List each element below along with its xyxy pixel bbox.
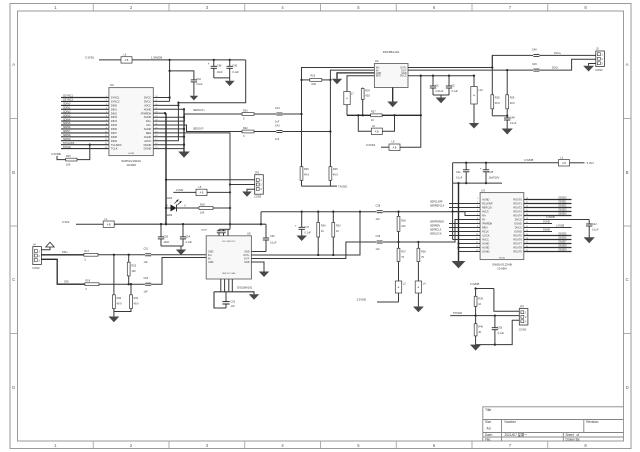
wire joining C46/C40 bottoms [214,78,230,81]
wire U4 GND to ground [337,73,374,79]
inductor L10 vertical [471,75,483,123]
svg-text:1nF: 1nF [376,248,381,251]
svg-text:C44: C44 [275,107,280,110]
svg-text:3.3VDB: 3.3VDB [357,298,366,302]
svg-text:DIN7: DIN7 [111,131,117,135]
svg-text:7: 7 [106,120,107,122]
svg-text:DOU+: DOU+ [554,52,562,55]
svg-text:10uF/16V: 10uF/16V [489,176,500,179]
resistor R24 ADJ [361,88,370,117]
svg-text:3.3V1: 3.3V1 [587,161,595,165]
wire rail1 RI+ line [261,211,480,216]
capacitor C40 0.1uF [227,59,240,78]
svg-text:C50: C50 [164,235,169,238]
svg-text:C36: C36 [270,235,275,238]
svg-text:D: D [626,385,629,390]
svg-text:10K: 10K [200,212,205,215]
svg-text:100: 100 [132,270,137,273]
svg-text:DESD6: DESD6 [559,237,568,240]
svg-text:DESD5: DESD5 [559,233,568,236]
wire TPGND net [450,311,519,317]
ground below C5/C6 [436,98,447,104]
svg-text:100nF: 100nF [201,230,208,232]
resistor R31 pulldown 49.9 [114,284,139,311]
svg-text:SERPWRDN: SERPWRDN [430,221,444,224]
svg-text:AGND: AGND [482,243,489,246]
svg-text:DVCC: DVCC [400,76,407,78]
resistor R27 series on bias rail [371,111,421,122]
svg-text:A3: A3 [487,427,491,431]
power net 3.3VD1 with ferrite bead L6 [85,54,246,64]
svg-text:0.1uF: 0.1uF [510,122,517,125]
svg-text:SO28: SO28 [499,257,505,259]
svg-text:C48: C48 [532,48,537,51]
svg-text:DESD3: DESD3 [559,209,568,212]
svg-text:C48: C48 [510,117,515,120]
svg-text:R33: R33 [336,225,341,228]
power net 3.3VD1 with inductor L9 [366,76,422,151]
power symbol at J4 pin3 [41,242,54,250]
svg-text:DO-: DO- [147,123,152,127]
ground below R30/R31 [109,317,120,323]
resistor R28 termination [491,55,500,115]
svg-text:A B: A B [562,162,566,165]
svg-text:TPGND: TPGND [453,311,462,315]
svg-text:A B: A B [375,130,379,133]
svg-text:C: C [626,277,629,282]
svg-text:AVCC: AVCC [482,211,489,214]
svg-text:C34: C34 [196,78,201,81]
svg-text:AGND: AGND [144,135,152,139]
svg-text:10-66M: 10-66M [126,163,136,167]
capacitor C46 10uF [208,59,223,78]
svg-text:B: B [626,170,629,175]
svg-text:10-66M: 10-66M [497,266,507,270]
svg-text:1K: 1K [371,119,374,122]
svg-text:10R: 10R [311,83,316,86]
capacitor C50 10nF [158,223,170,246]
svg-text:Drawn By:: Drawn By: [566,438,581,442]
wire U4 DVCC rail [408,75,474,77]
svg-text:DO+: DO+ [146,119,152,123]
svg-text:B: B [12,170,15,175]
svg-text:U2: U2 [110,83,114,87]
resistor R38 75 [417,242,426,281]
wires U2 left input bundle with net labels [61,95,109,149]
wire U2 /PWRDN stub [153,112,165,114]
resistor R36 100 [397,212,406,242]
svg-text:AGND: AGND [482,199,489,202]
svg-text:RI-: RI- [482,219,486,222]
svg-text:ROUT0: ROUT0 [513,199,522,202]
wire bias rail U4 [347,114,371,116]
svg-text:U3: U3 [481,188,485,192]
svg-text:SERCLKRF: SERCLKRF [430,201,443,204]
svg-text:3: 3 [106,104,107,106]
svg-text:A B: A B [125,59,129,62]
svg-text:100: 100 [401,225,406,228]
svg-text:AVCC: AVCC [144,104,151,108]
svg-text:GND: GND [401,73,406,75]
op-amp U3 deserializer SN65LV1224B [476,188,528,270]
svg-text:ROUT5: ROUT5 [513,235,522,238]
svg-text:DIN8: DIN8 [111,135,117,139]
svg-text:2: 2 [106,100,107,102]
svg-text:SSYNC1: SSYNC1 [63,95,74,98]
svg-text:OUT-: OUT- [401,70,407,72]
wire DVCC feed to U2 [153,59,170,102]
svg-text:DS15BA101: DS15BA101 [237,285,253,289]
svg-text:C41: C41 [456,171,461,174]
ground at J5 [583,66,594,72]
resistor R18 LED series [199,203,231,214]
wire U5 OUT+ rail [251,211,361,257]
svg-text:C46: C46 [217,65,222,68]
svg-text:U5: U5 [247,232,251,236]
svg-text:1nF: 1nF [376,218,381,221]
wire TXGND node [302,184,348,188]
ground below U5 bottom pins [249,294,259,300]
svg-text:D: D [12,385,15,390]
svg-text:49.9: 49.9 [134,303,139,306]
resistor R30 pulldown 49.9 [113,255,123,317]
capacitor C43 series 1nF [275,124,330,140]
wire cap bottoms [161,246,183,250]
resistor R23 10R bridge [302,75,331,86]
svg-text:ROUT8: ROUT8 [513,247,522,250]
wire U2 AGND/DGND trunk [153,108,185,151]
svg-text:1K: 1K [321,230,324,233]
svg-text:DESD7: DESD7 [559,241,568,244]
svg-text:C54: C54 [186,235,191,238]
wire U5 GND2 to ground [251,262,264,272]
svg-text:SDIN5: SDIN5 [63,122,71,125]
connector JP2 [254,170,263,198]
svg-text:ROUT6: ROUT6 [513,239,522,242]
svg-text:49.9: 49.9 [304,174,309,177]
svg-text:CON3: CON3 [595,68,603,72]
svg-text:R22: R22 [243,127,248,130]
svg-text:SSYNC2: SSYNC2 [63,99,74,102]
svg-text:DVCC: DVCC [515,227,522,230]
svg-text:SDIN0: SDIN0 [63,103,71,106]
connector JP3 [519,304,528,331]
svg-text:11: 11 [105,135,107,137]
svg-text:3.3VDB: 3.3VDB [51,152,61,156]
svg-text:0.1uF: 0.1uF [498,332,505,335]
svg-text:R19: R19 [86,280,91,283]
svg-text:1K: 1K [336,230,339,233]
power net 3.3VDB to L3 [357,298,399,302]
ground below R40 [470,345,481,351]
wire U3 DVCC to C42 [524,216,589,220]
ground U4 bottom [387,102,398,108]
svg-text:ROUT9: ROUT9 [513,251,522,254]
svg-text:DGND: DGND [514,223,522,226]
svg-text:C39: C39 [376,235,381,238]
svg-text:3.3VD1: 3.3VD1 [366,143,376,147]
svg-text:R29: R29 [510,97,515,100]
svg-text:REFCLK: REFCLK [482,207,492,210]
svg-text:10K: 10K [66,163,71,166]
wire AVCC feed into U3 [451,183,480,239]
capacitor C36 0.1uF [263,224,277,251]
svg-text:3.3VDB: 3.3VDB [556,224,565,227]
capacitor C37 0.1uF [295,212,312,236]
svg-text:DESD1: DESD1 [559,201,568,204]
capacitor C63 0.1uF [492,316,505,345]
wire SDI+ net [41,250,84,255]
wire U5 top pins with bypass caps [201,229,230,236]
ground below C37 [297,236,307,242]
svg-text:A: A [626,62,629,67]
svg-text:BFO: BFO [376,76,381,78]
svg-text:1: 1 [106,96,107,98]
ground big below U3 [452,261,466,268]
svg-text:1.99VDB: 1.99VDB [151,55,162,59]
capacitor C34 0.1uF decoupling [168,70,203,96]
wire SEDOUT- net [153,125,242,132]
wire 3.3V rail riser to mid network [260,212,262,226]
svg-text:VCC GND VCC: VCC GND VCC [222,241,236,243]
svg-text:DIN9: DIN9 [111,139,117,143]
svg-text:JP2: JP2 [255,170,260,174]
svg-text:DESD8: DESD8 [559,245,568,248]
svg-text:SYNC2: SYNC2 [111,100,120,104]
svg-text:Date:: Date: [485,433,493,437]
capacitor C36b 0.01uF [430,76,444,95]
wire JP2 pin1 net [165,179,255,181]
svg-text:8: 8 [106,123,107,125]
title block [483,407,624,441]
svg-text:C40: C40 [232,65,237,68]
svg-text:U4: U4 [375,59,379,63]
svg-text:DGND: DGND [543,220,550,223]
svg-text:JP3: JP3 [520,304,525,308]
svg-text:ADJ: ADJ [365,95,370,98]
svg-text:+: + [295,223,297,227]
svg-text:R20: R20 [243,109,248,112]
svg-text:IN-: IN- [376,70,379,72]
capacitor C35b 0.1uF [446,76,459,95]
ground below C50/C54 [176,250,186,256]
svg-text:AGND: AGND [144,107,152,111]
inductor L3 ferrite [395,281,406,302]
svg-text:SERREN: SERREN [430,225,440,228]
svg-text:10: 10 [105,131,107,133]
wire rail2 RI- line [382,220,480,244]
svg-text:SDIN9: SDIN9 [63,138,71,141]
svg-text:DGND: DGND [144,143,152,147]
ground below C42 [584,237,595,243]
svg-text:TCLK: TCLK [111,147,118,151]
svg-text:GND: GND [208,261,214,264]
svg-text:4: 4 [106,108,107,110]
svg-text:DVCC: DVCC [144,100,151,104]
capacitor C56 series on DOUT+ [532,48,596,57]
svg-text:C45: C45 [489,171,494,174]
wire U3 DGND stub [524,220,552,223]
power net 3.3VDB top of U3 with bead L2 [453,157,595,167]
wires U3 left control nets [430,201,480,236]
svg-text:DGND: DGND [482,251,490,254]
svg-text:DOU-: DOU- [552,67,559,70]
svg-text:Size: Size [485,420,491,424]
svg-text:C37: C37 [305,226,310,229]
svg-text:GND: GND [376,73,381,75]
svg-text:OUT+: OUT+ [400,68,407,70]
resistor R20 series [242,109,277,120]
svg-text:R39: R39 [478,298,483,301]
svg-text:5: 5 [106,112,107,114]
capacitor C38 series 1nF [376,205,383,221]
svg-text:LED4: LED4 [166,197,173,200]
capacitor C57 series on DOUT- [532,59,596,72]
svg-text:C52: C52 [144,277,149,280]
svg-text:49.9: 49.9 [117,303,122,306]
wire SEDOUT+ net [153,109,242,121]
svg-text:C51: C51 [144,248,149,251]
svg-text:10uF: 10uF [217,71,223,74]
svg-text:R25: R25 [304,168,309,171]
capacitor C39 series 1nF [376,235,383,251]
svg-text:AGND: AGND [144,115,152,119]
svg-text:A B: A B [107,223,111,226]
wire caps bottoms to ground [433,95,449,98]
wire U3 DVCC2 stub [524,224,572,227]
svg-text:C: C [12,277,15,282]
svg-text:0.1uF: 0.1uF [452,90,459,93]
svg-text:+: + [208,62,210,66]
svg-text:RCLKR/F: RCLKR/F [482,203,493,206]
svg-text:13: 13 [105,143,107,145]
wire U5 OUT- to C39 line [251,242,376,259]
svg-text:3.3VDB: 3.3VDB [524,158,533,162]
svg-text:0.1uF: 0.1uF [196,83,203,86]
svg-text:SDIN6: SDIN6 [63,126,71,129]
svg-text:REN: REN [482,227,487,230]
svg-text:RCLK: RCLK [482,231,489,234]
svg-text:GND: GND [244,261,250,264]
svg-text:ROUT7: ROUT7 [513,243,522,246]
svg-text:3.3VDB: 3.3VDB [546,216,555,219]
svg-text:AVCC: AVCC [482,239,489,242]
ground right of U5 [259,272,269,278]
wire long vertical control/supply bus [165,113,167,224]
svg-text:SO28: SO28 [128,153,134,155]
resistor R16 pull-up on TCLKR/F [51,144,91,167]
svg-text:STCLK: STCLK [63,146,71,149]
svg-text:Revision: Revision [586,420,598,424]
svg-text:DIN2: DIN2 [111,111,117,115]
svg-text:R26: R26 [333,168,338,171]
svg-text:SERREFCLK: SERREFCLK [430,205,445,208]
svg-text:5: 5 [477,214,478,216]
svg-text:49.9: 49.9 [510,102,515,105]
wire DOUT+ from U4 [408,55,534,67]
wire JP3 lower return [476,320,520,346]
svg-text:0.1uF: 0.1uF [186,241,193,244]
resistor R26 termination 49.9 [329,167,338,186]
svg-text:14: 14 [105,147,107,149]
ground below C46/C40 [225,81,235,86]
svg-text:12: 12 [105,139,107,141]
svg-text:R32: R32 [132,265,137,268]
svg-text:10nF: 10nF [164,241,170,244]
svg-text:4K: 4K [478,331,481,334]
svg-text:6: 6 [106,116,107,118]
capacitor C53 1nF loop [214,279,254,308]
wire riser to U4 IN- [329,70,374,167]
svg-text:R37: R37 [401,251,406,254]
svg-text:LED4: LED4 [166,214,173,217]
svg-text:A B: A B [200,192,204,195]
svg-text:R31: R31 [134,297,139,300]
resistor R29 termination [506,69,515,116]
svg-text:DESD9: DESD9 [559,249,568,252]
svg-text:TXGND: TXGND [338,184,347,188]
svg-text:0.1uF: 0.1uF [270,242,277,245]
resistor R33 1K [332,212,341,255]
wire U3 DGND2 stub [524,228,552,231]
svg-text:DIN4: DIN4 [111,119,117,123]
svg-text:3.3VD1: 3.3VD1 [85,55,95,59]
svg-text:1nF: 1nF [144,291,149,294]
capacitor C54 0.1uF [180,223,193,246]
inductor L4 ferrite [415,281,426,307]
ground at JP2 [242,192,252,197]
resistor R22 series [242,127,277,138]
capacitor C41 0.1uF [456,163,469,183]
svg-text:SERLOCK: SERLOCK [430,233,442,236]
svg-text:0.1uF: 0.1uF [305,232,312,235]
svg-text:SEDOUT-: SEDOUT- [193,128,204,131]
svg-text:RI+: RI+ [482,215,487,218]
ground below L4 [413,307,424,313]
wire U4 bottom GND pin [392,88,394,102]
svg-text:0.1uF: 0.1uF [232,71,239,74]
svg-text:SERRCLK: SERRCLK [430,229,442,232]
svg-text:1nF: 1nF [144,261,149,264]
svg-text:1nF: 1nF [275,120,280,123]
svg-text:Title: Title [485,408,491,412]
svg-text:DGND: DGND [144,147,152,151]
connector J4 input [32,242,41,269]
svg-text:0.1uF: 0.1uF [456,176,463,179]
svg-text:CON3: CON3 [519,328,527,332]
inductor L8 ferrite parallel [357,114,396,134]
resistor R37 75 [397,242,406,281]
svg-text:R23: R23 [311,75,316,78]
svg-text:SDIN8: SDIN8 [63,134,71,137]
capacitor C51 series 1nF [144,248,207,264]
svg-text:A B: A B [393,146,397,149]
svg-text:0.01uF: 0.01uF [436,90,444,93]
svg-text:3.3V2: 3.3V2 [62,220,70,224]
svg-text:+: + [480,166,482,170]
wires U3 right ROUT nets [524,197,572,252]
svg-text:SDI+: SDI+ [62,250,68,254]
ground U4 input side [332,79,342,85]
wire riser to U4 IN+ [300,68,374,167]
svg-text:1nF: 1nF [275,138,280,141]
capacitor C44 series 1nF [275,107,302,123]
svg-text:49.9: 49.9 [333,174,338,177]
svg-text:SDIN7: SDIN7 [63,130,71,133]
svg-text:R38: R38 [421,251,426,254]
connector J5 output [595,47,604,72]
svg-text:R17: R17 [85,250,90,253]
